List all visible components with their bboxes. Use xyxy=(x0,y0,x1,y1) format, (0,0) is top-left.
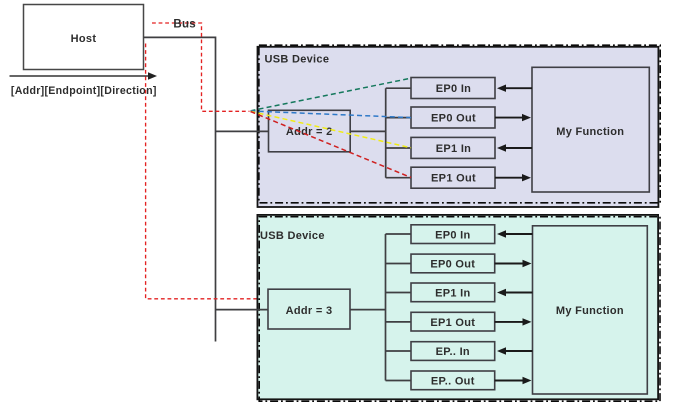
USB device 1 box xyxy=(258,45,661,207)
USB device 2 box xyxy=(257,215,660,401)
endpoint connector device 1 xyxy=(386,88,411,178)
svg-text:Bus: Bus xyxy=(173,18,196,30)
EP1 Out box device 2 xyxy=(411,312,495,331)
endpoint connector device 2 xyxy=(386,234,412,381)
Addr = 2 box xyxy=(269,110,351,152)
wire host to bus corner xyxy=(144,36,216,38)
wire Addr=2 to endpoint connector xyxy=(350,130,386,132)
arrow My Function to EP1 In device 1 xyxy=(497,144,532,151)
svg-text:My Function: My Function xyxy=(556,126,624,138)
svg-text:EP1 In: EP1 In xyxy=(436,143,471,155)
arrow My Function to EP0 In device 2 xyxy=(497,230,533,237)
bus red dashed route to device 1 xyxy=(152,23,250,111)
svg-text:[Addr][Endpoint][Direction]: [Addr][Endpoint][Direction] xyxy=(11,85,157,97)
token route teal dashed to EP0 In xyxy=(251,78,412,111)
arrow EP0 Out to My Function device 1 xyxy=(495,114,531,121)
svg-text:USB Device: USB Device xyxy=(265,53,330,65)
token route red dashed to EP1 Out xyxy=(251,112,412,178)
EP0 Out box device 2 xyxy=(411,254,495,273)
arrow EP.. Out to My Function device 2 xyxy=(495,377,532,384)
arrow EP1 Out to My Function device 1 xyxy=(495,174,531,181)
svg-text:My Function: My Function xyxy=(556,305,624,317)
EP0 Out box device 1 xyxy=(411,107,495,128)
bus red dashed route to device 2 xyxy=(146,44,257,299)
EP1 Out box device 1 xyxy=(411,167,495,188)
host box Host xyxy=(24,5,144,70)
EP.. In box device 2 xyxy=(411,342,495,361)
arrow My Function to EP0 In device 1 xyxy=(497,85,532,92)
My Function box device 1 xyxy=(532,67,649,192)
EP1 In box device 1 xyxy=(411,137,495,158)
My Function box device 2 xyxy=(533,226,648,394)
svg-text:EP1 Out: EP1 Out xyxy=(430,317,475,329)
svg-text:EP1 Out: EP1 Out xyxy=(431,173,476,185)
arrow My Function to EP1 In device 2 xyxy=(497,289,533,296)
svg-text:EP0 In: EP0 In xyxy=(435,229,470,241)
arrow EP0 Out to My Function device 2 xyxy=(495,260,532,267)
svg-text:USB Device: USB Device xyxy=(260,230,325,242)
wire Addr=3 to endpoint connector xyxy=(350,309,386,311)
svg-text:Host: Host xyxy=(71,33,97,45)
svg-text:EP0 Out: EP0 Out xyxy=(431,113,476,125)
wire bus to Addr=2 xyxy=(216,130,269,132)
bus vertical wire xyxy=(215,37,217,342)
wire bus to Addr=3 xyxy=(216,309,269,311)
svg-text:EP0 In: EP0 In xyxy=(436,83,471,95)
arrow My Function to EP.. In device 2 xyxy=(497,347,533,354)
svg-text:EP1 In: EP1 In xyxy=(435,288,470,300)
EP0 In box device 1 xyxy=(411,78,495,99)
EP0 In box device 2 xyxy=(411,225,495,244)
arrow EP1 Out to My Function device 2 xyxy=(495,318,532,325)
Addr = 3 box xyxy=(268,289,350,329)
EP1 In box device 2 xyxy=(411,283,495,302)
svg-text:Addr = 3: Addr = 3 xyxy=(286,305,333,317)
EP.. Out box device 2 xyxy=(411,371,495,390)
svg-text:EP.. In: EP.. In xyxy=(436,346,470,358)
token route blue dashed to EP0 Out xyxy=(251,111,412,118)
host token arrow xyxy=(10,72,158,79)
svg-text:EP.. Out: EP.. Out xyxy=(431,376,475,388)
svg-text:EP0 Out: EP0 Out xyxy=(430,259,475,271)
token route yellow dashed to EP1 In xyxy=(251,111,412,148)
